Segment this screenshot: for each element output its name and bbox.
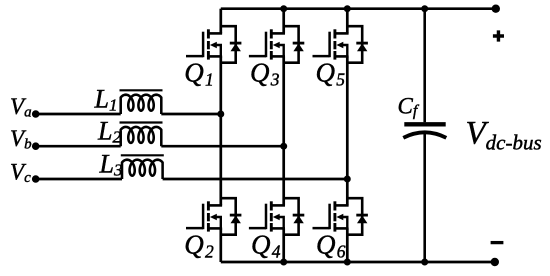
svg-text:L2: L2 [97, 117, 121, 147]
transistor Q1 body diode triangle [231, 43, 241, 51]
transistor Q4 channel source bar [270, 223, 273, 232]
wire: phase c input (terminal to L3) [36, 178, 122, 181]
transistor Q5 gate bar [328, 32, 331, 58]
transistor Q3 gate bar [265, 32, 268, 58]
transistor Q2 channel drain bar [207, 201, 210, 210]
transistor Q3 body diode branch wire [284, 26, 299, 63]
wire: leg 1 midpoint (Q1 source to Q2 drain, phase node) [219, 56, 222, 205]
transistor Q5 drain stub [334, 32, 348, 35]
transistor Q1 channel body bar [207, 41, 210, 49]
wire: capacitor branch upper (top rail to Cf) [423, 9, 426, 123]
transistor Q2 drain stub [208, 204, 222, 207]
transistor Q1 source stub [208, 55, 222, 58]
transistor Q2 body diode cathode bar [230, 214, 242, 217]
node: junction phase c / leg 3 midpoint [344, 176, 351, 183]
transistor Q3 channel body bar [270, 41, 273, 49]
transistor Q4 channel body bar [270, 213, 273, 221]
wire: leg 1 lower (Q2 source to bottom rail) [219, 228, 222, 262]
inductor L1 core bar [120, 89, 163, 91]
node: junction phase a / leg 1 midpoint [217, 111, 224, 118]
wire: leg 3 upper (top rail to Q5 drain) [346, 9, 349, 34]
transistor Q6 source stub [334, 227, 348, 230]
svg-text:L1: L1 [94, 85, 118, 115]
transistor Q3 channel drain bar [270, 29, 273, 38]
transistor Q2 body diode triangle [231, 215, 241, 223]
wire: leg 1 upper (top rail to Q1 drain) [219, 9, 222, 34]
wire: leg 2 upper (top rail to Q3 drain) [282, 9, 285, 34]
transistor Q3 body diode cathode bar [293, 42, 305, 45]
node: junction top rail / capacitor branch [421, 5, 428, 12]
transistor Q1 body diode cathode bar [230, 42, 242, 45]
node: junction bottom rail / capacitor branch [421, 259, 428, 266]
transistor Q5 body diode triangle [357, 43, 367, 51]
transistor Q3 body-source link [279, 45, 284, 56]
transistor Q2 gate bar [202, 204, 205, 230]
wire: top DC bus rail [221, 7, 496, 10]
transistor Q4 body diode triangle [293, 215, 303, 223]
node: Va input terminal [32, 110, 40, 118]
transistor Q6 (bottom leg 3) [313, 198, 368, 235]
transistor Q2 body arrow [210, 214, 217, 221]
wire: leg 3 midpoint (Q5 source to Q6 drain, phase node) [346, 56, 349, 205]
wire: leg 2 midpoint (Q3 source to Q4 drain, phase node) [282, 56, 285, 205]
transistor Q6 channel source bar [333, 223, 336, 232]
svg-text:Vdc-bus: Vdc-bus [466, 116, 542, 155]
capacitor Cf top plate [404, 122, 445, 126]
svg-text:Q4: Q4 [251, 229, 281, 261]
transistor Q5 source stub [334, 55, 348, 58]
transistor Q4 body-source link [279, 217, 284, 228]
transistor Q5 body diode cathode bar [356, 42, 368, 45]
transistor Q1 gate bar [202, 32, 205, 58]
wire: phase a input (terminal to L1) [36, 113, 121, 116]
transistor Q4 channel drain bar [270, 201, 273, 210]
transistor Q3 gate lead [249, 55, 266, 58]
transistor Q3 drain stub [271, 32, 285, 35]
wire: phase a (L1 to leg 1) [161, 113, 221, 116]
wire: phase c (L3 to leg 3) [163, 178, 348, 181]
wire: bottom DC bus rail [221, 261, 495, 264]
transistor Q6 body diode branch wire [347, 198, 362, 235]
transistor Q6 channel body bar [333, 213, 336, 221]
transistor Q1 channel drain bar [207, 29, 210, 38]
transistor Q6 body arrow [336, 214, 343, 221]
node: junction bottom rail / leg 2 [280, 259, 287, 266]
wire: capacitor branch lower (Cf to bottom rail) [423, 134, 426, 262]
wire: leg 3 lower (Q6 source to bottom rail) [346, 228, 349, 262]
node: Vb input terminal [32, 142, 40, 150]
transistor Q3 channel source bar [270, 51, 273, 60]
transistor Q1 channel source bar [207, 51, 210, 60]
transistor Q2 body-source link [216, 217, 221, 228]
transistor Q1 body-source link [216, 45, 221, 56]
transistor Q2 body diode branch wire [221, 198, 236, 235]
transistor Q4 body arrow [273, 214, 280, 221]
transistor Q5 channel source bar [333, 51, 336, 60]
svg-text:Q1: Q1 [184, 57, 213, 89]
transistor Q3 body diode triangle [293, 43, 303, 51]
transistor Q3 (top leg 2) [249, 26, 304, 63]
transistor Q6 drain stub [334, 204, 348, 207]
transistor Q6 gate lead [313, 227, 330, 230]
node: DC bus negative terminal [491, 258, 499, 266]
transistor Q3 body arrow [273, 42, 280, 49]
svg-text:Q6: Q6 [316, 229, 346, 261]
transistor Q2 (bottom leg 1) [186, 198, 241, 235]
capacitor Cf bottom curved plate [403, 132, 446, 138]
node: junction phase b / leg 2 midpoint [280, 143, 287, 150]
svg-text:Q3: Q3 [250, 57, 280, 89]
transistor Q4 gate lead [249, 227, 266, 230]
transistor Q2 gate lead [186, 227, 203, 230]
label: minus sign (negative DC terminal) [491, 241, 504, 244]
transistor Q2 channel body bar [207, 213, 210, 221]
transistor Q3 source stub [271, 55, 285, 58]
node: Vc input terminal [32, 175, 40, 183]
svg-text:Vb: Vb [10, 126, 32, 153]
node: junction top rail / leg 3 [344, 5, 351, 12]
transistor Q5 (top leg 3) [313, 26, 368, 63]
inductor L2 core bar [120, 121, 163, 123]
transistor Q4 body diode branch wire [284, 198, 299, 235]
transistor Q1 body arrow [210, 42, 217, 49]
transistor Q6 gate bar [328, 204, 331, 230]
inductor L2 coil [121, 127, 162, 146]
transistor Q1 gate lead [186, 55, 203, 58]
inductor L1 coil [121, 95, 162, 114]
node: junction bottom rail / leg 3 [344, 259, 351, 266]
inductor L3 coil [122, 160, 163, 179]
svg-text:Q5: Q5 [316, 57, 346, 89]
transistor Q6 body diode triangle [357, 215, 367, 223]
label: plus sign (positive DC terminal) [493, 30, 504, 41]
transistor Q1 (top leg 1) [186, 26, 241, 63]
transistor Q5 body diode branch wire [347, 26, 362, 63]
transistor Q1 body diode branch wire [221, 26, 236, 63]
transistor Q5 body-source link [343, 45, 348, 56]
transistor Q4 (bottom leg 2) [249, 198, 304, 235]
transistor Q5 channel body bar [333, 41, 336, 49]
svg-text:Cf: Cf [398, 94, 420, 120]
transistor Q1 drain stub [208, 32, 222, 35]
svg-text:Va: Va [10, 94, 32, 121]
transistor Q4 body diode cathode bar [293, 214, 305, 217]
wire: phase b input (terminal to L2) [36, 145, 121, 148]
transistor Q4 drain stub [271, 204, 285, 207]
transistor Q6 body diode cathode bar [356, 214, 368, 217]
transistor Q5 body arrow [336, 42, 343, 49]
transistor Q5 channel drain bar [333, 29, 336, 38]
inductor L3 core bar [121, 154, 164, 156]
transistor Q6 body-source link [343, 217, 348, 228]
transistor Q6 channel drain bar [333, 201, 336, 210]
transistor Q2 source stub [208, 227, 222, 230]
node: junction top rail / leg 2 [280, 5, 287, 12]
node: DC bus positive terminal [492, 5, 500, 13]
wire: leg 2 lower (Q4 source to bottom rail) [282, 228, 285, 262]
transistor Q2 channel source bar [207, 223, 210, 232]
svg-text:Vc: Vc [10, 159, 31, 186]
transistor Q5 gate lead [313, 55, 330, 58]
svg-text:L3: L3 [99, 149, 123, 179]
wire: phase b (L2 to leg 2) [161, 145, 283, 148]
transistor Q4 gate bar [265, 204, 268, 230]
transistor Q4 source stub [271, 227, 285, 230]
svg-text:Q2: Q2 [184, 229, 214, 261]
